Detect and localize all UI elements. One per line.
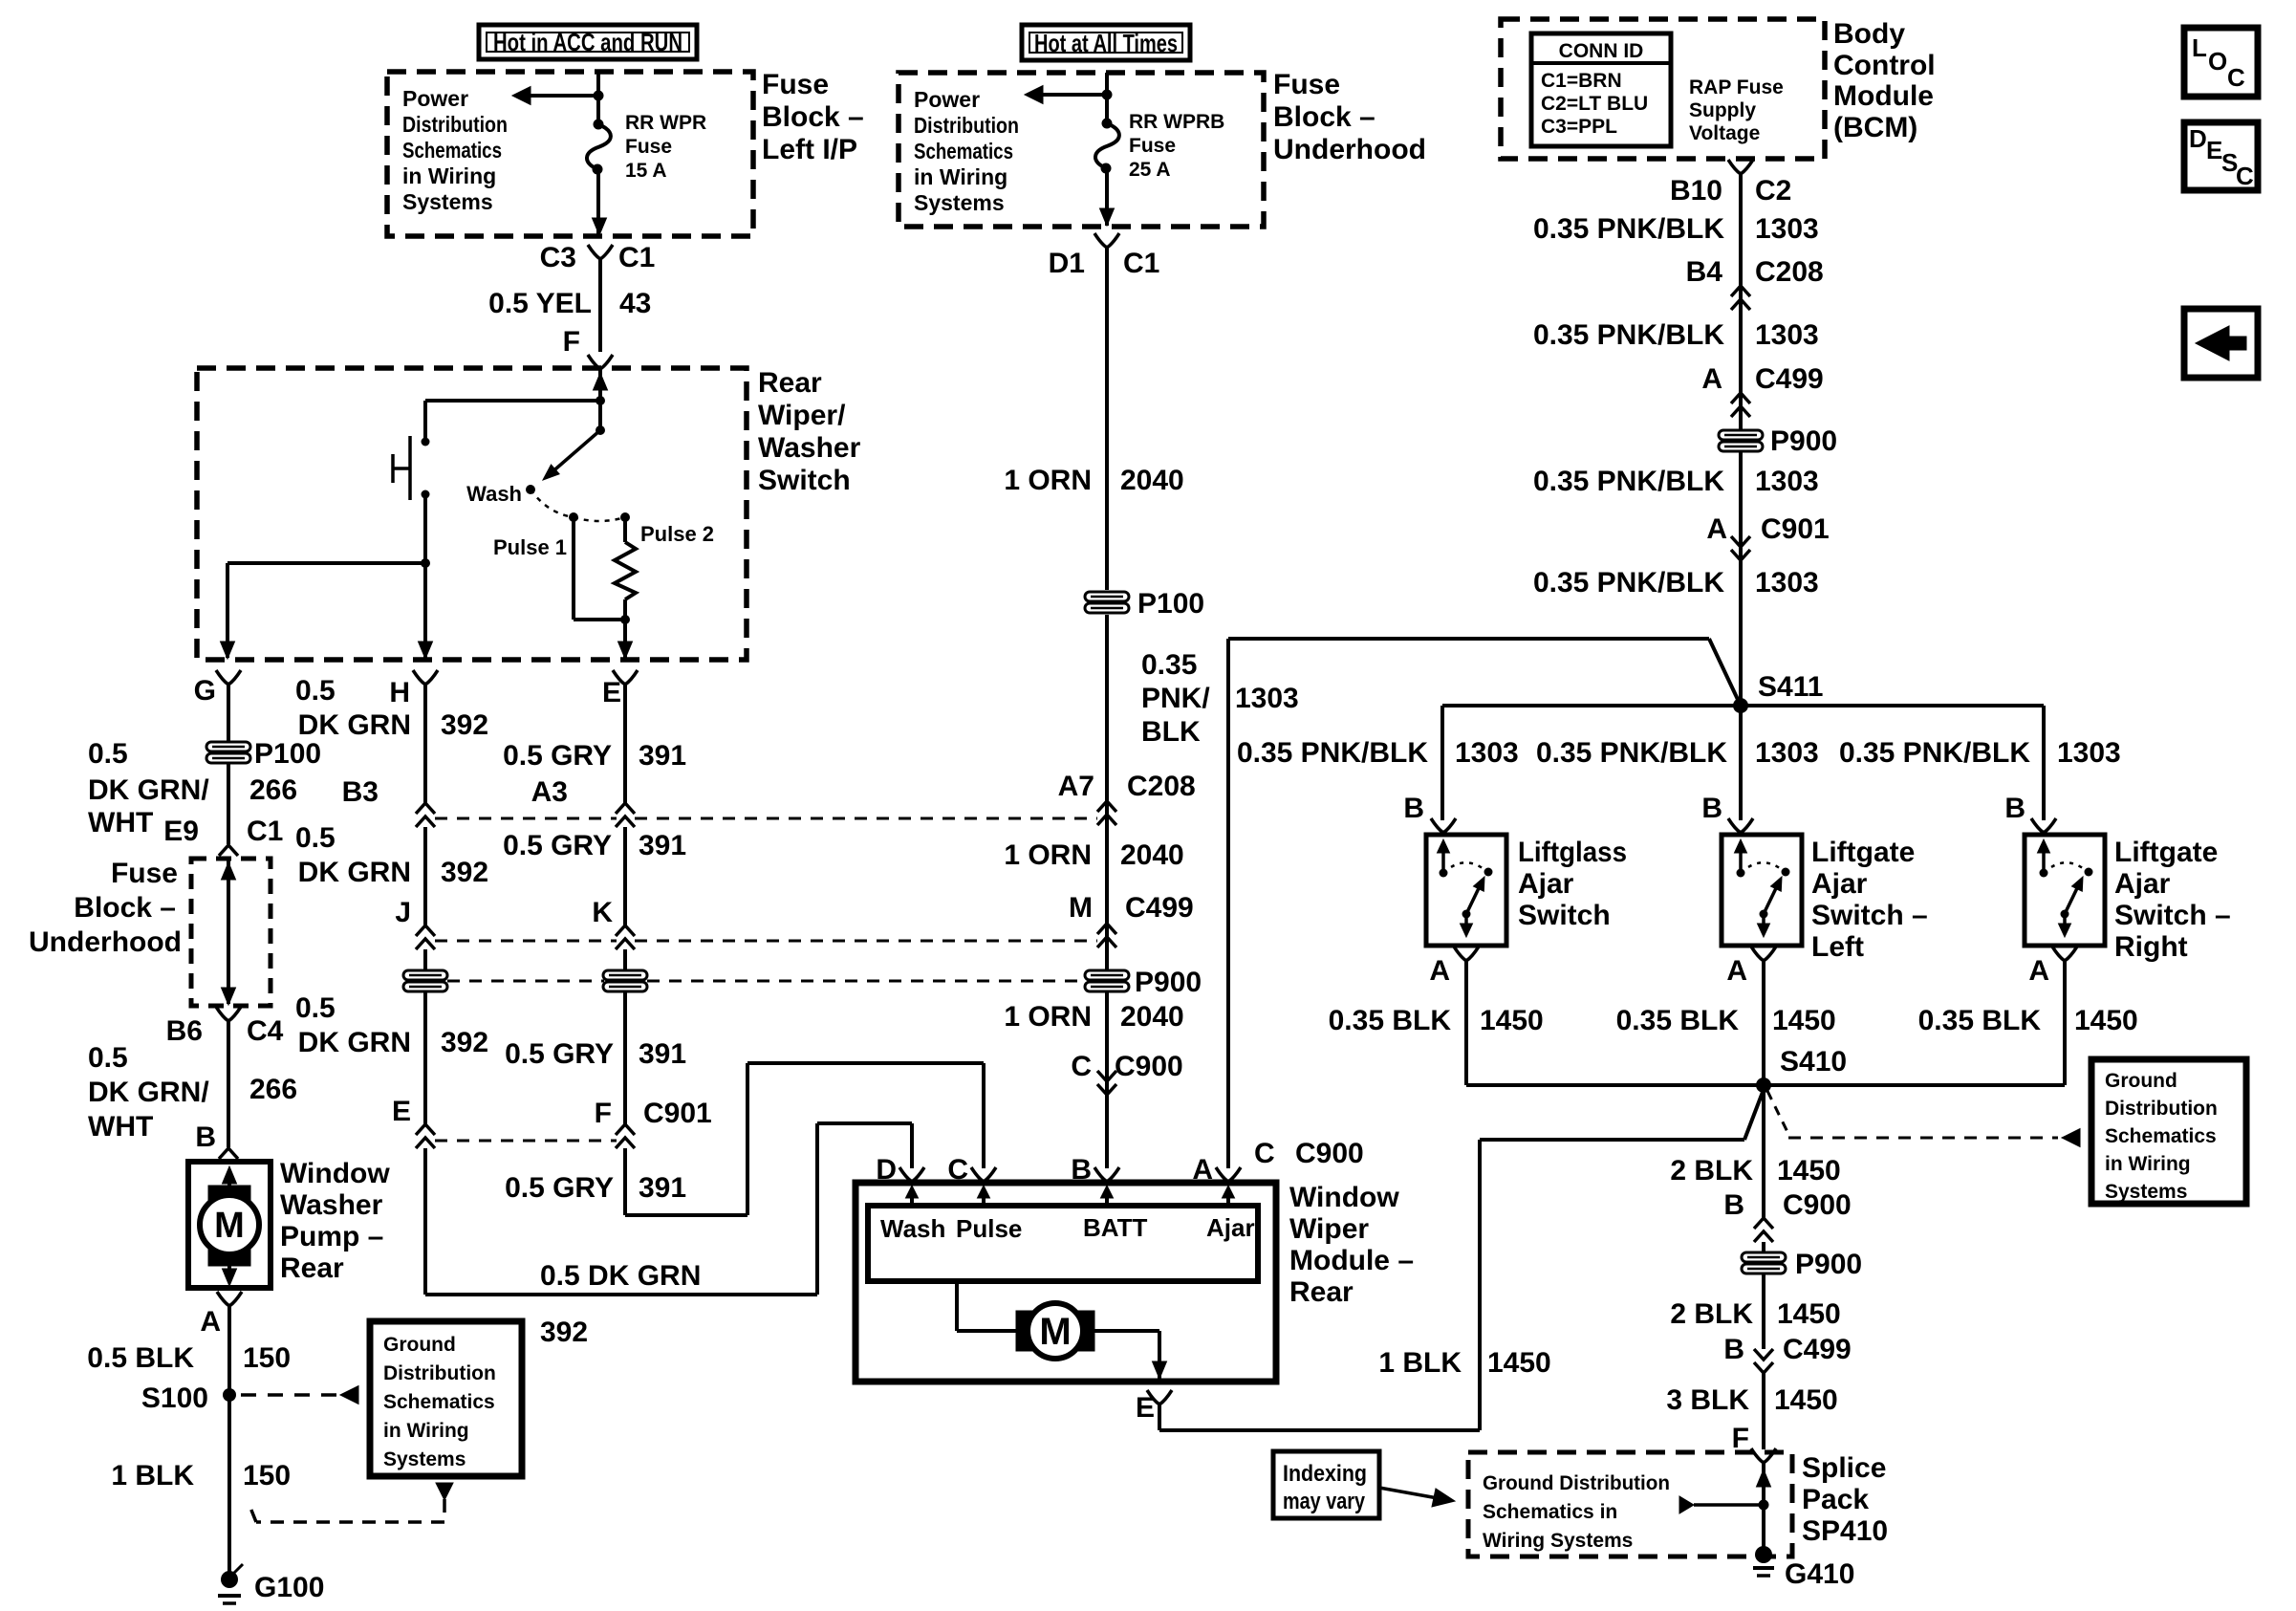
svg-text:Ground Distribution: Ground Distribution (1483, 1472, 1670, 1494)
svg-text:Switch –: Switch – (2114, 900, 2231, 931)
svg-text:C1: C1 (247, 816, 283, 847)
svg-text:1303: 1303 (1755, 567, 1819, 599)
resistor (pulse2) (623, 517, 627, 542)
svg-text:Window: Window (1289, 1182, 1399, 1213)
module inner terminal strip (868, 1206, 1258, 1281)
svg-text:C499: C499 (1755, 363, 1824, 395)
svg-text:0.35 PNK/BLK: 0.35 PNK/BLK (1533, 567, 1724, 599)
wire: S411 distribution bus (1442, 704, 2044, 708)
wire: module Ajar pin up and right to S411 (1226, 639, 1230, 1168)
wire: P100 to E (423, 991, 427, 1124)
splice pack SP410 dashed box (1468, 1452, 1792, 1557)
svg-text:Rear: Rear (758, 367, 822, 399)
pass-through P900 (BCM column) (1719, 430, 1763, 451)
svg-text:392: 392 (441, 1027, 488, 1058)
wire: S410 down (2 BLK 1450) (1762, 1085, 1765, 1218)
svg-text:Liftgate: Liftgate (2114, 837, 2218, 868)
dashed link row P100/P900 (447, 980, 604, 983)
svg-text:266: 266 (249, 1074, 297, 1105)
svg-text:3 BLK: 3 BLK (1666, 1384, 1749, 1416)
svg-text:Fuse: Fuse (762, 69, 829, 100)
svg-text:A: A (1701, 363, 1722, 395)
arrow: indexing note to splice pack (1379, 1488, 1438, 1498)
connector D1/C1 (1094, 233, 1107, 248)
svg-text:Pack: Pack (1802, 1484, 1869, 1515)
wire: common to left contact branch (425, 399, 600, 403)
svg-text:BATT: BATT (1083, 1213, 1148, 1242)
svg-text:0.5: 0.5 (295, 992, 336, 1024)
svg-text:E: E (2206, 136, 2222, 164)
svg-text:0.35 PNK/BLK: 0.35 PNK/BLK (1839, 737, 2030, 769)
wire into splice pack (1762, 1463, 1765, 1553)
svg-text:150: 150 (243, 1342, 291, 1374)
svg-text:1303: 1303 (2057, 737, 2121, 769)
wire: Pulse1 branch (572, 517, 575, 620)
svg-text:Left I/P: Left I/P (762, 134, 857, 165)
wire below fuse to box edge (1105, 168, 1109, 226)
svg-text:Schematics in: Schematics in (1483, 1501, 1617, 1523)
wire: fuse block feed (middle) (1105, 73, 1109, 123)
svg-text:C1: C1 (618, 242, 655, 273)
svg-text:M: M (1039, 1311, 1071, 1353)
svg-text:Washer: Washer (280, 1189, 383, 1221)
svg-text:A: A (1706, 513, 1727, 545)
svg-text:P100: P100 (254, 738, 321, 770)
svg-text:Pulse 2: Pulse 2 (640, 522, 714, 546)
svg-text:1 BLK: 1 BLK (111, 1460, 194, 1491)
ground distribution schematics box (left) (370, 1321, 522, 1476)
svg-text:25 A: 25 A (1129, 159, 1171, 181)
svg-text:1303: 1303 (1755, 737, 1819, 769)
svg-text:C3: C3 (540, 242, 576, 273)
svg-text:Schematics: Schematics (383, 1391, 495, 1413)
svg-text:in Wiring: in Wiring (2105, 1153, 2191, 1175)
svg-text:392: 392 (441, 857, 488, 888)
liftglass ajar switch (1426, 835, 1506, 946)
wire: lower contact to junction (423, 494, 427, 563)
svg-text:Systems: Systems (383, 1448, 466, 1470)
svg-text:B4: B4 (1686, 256, 1723, 288)
svg-text:0.5: 0.5 (88, 738, 128, 770)
ground distribution schematics box (right) (2091, 1059, 2246, 1204)
svg-text:C4: C4 (247, 1015, 284, 1047)
svg-text:B3: B3 (342, 776, 379, 808)
svg-text:M: M (214, 1206, 245, 1246)
svg-text:Distribution: Distribution (2105, 1098, 2218, 1120)
svg-text:DK GRN: DK GRN (298, 709, 411, 741)
svg-text:DK GRN: DK GRN (298, 1027, 411, 1058)
svg-text:392: 392 (441, 709, 488, 741)
svg-text:Module –: Module – (1289, 1245, 1414, 1276)
CONN ID table (1531, 33, 1671, 146)
svg-text:2040: 2040 (1120, 465, 1184, 496)
node Pulse 1 (569, 512, 578, 522)
svg-text:B: B (1071, 1154, 1092, 1186)
svg-text:0.35 PNK/BLK: 0.35 PNK/BLK (1533, 466, 1724, 497)
svg-text:Voltage: Voltage (1689, 122, 1760, 144)
wire label 3 BLK 1450 (1762, 1373, 1765, 1449)
svg-text:F: F (595, 1098, 612, 1129)
svg-text:0.35 BLK: 0.35 BLK (1918, 1005, 2042, 1036)
ground G410 (1755, 1546, 1772, 1563)
svg-text:Ajar: Ajar (1206, 1213, 1255, 1242)
indexing note box (1273, 1451, 1379, 1518)
svg-text:Wash: Wash (466, 482, 522, 506)
wire: F feed into switch (598, 369, 602, 401)
svg-text:Liftgate: Liftgate (1811, 837, 1915, 868)
svg-text:C900: C900 (1115, 1051, 1183, 1082)
svg-text:DK GRN: DK GRN (298, 857, 411, 888)
svg-text:D1: D1 (1049, 248, 1085, 279)
svg-text:G410: G410 (1785, 1558, 1854, 1590)
svg-text:C900: C900 (1783, 1189, 1852, 1221)
wire: E down to A3 (623, 685, 627, 803)
wire: 1 ORN 2040 (top) (1105, 248, 1109, 590)
svg-text:Wash: Wash (880, 1214, 945, 1243)
svg-text:C901: C901 (643, 1098, 712, 1129)
svg-text:C900: C900 (1295, 1138, 1364, 1169)
svg-text:1303: 1303 (1455, 737, 1519, 769)
svg-text:C1: C1 (1123, 248, 1159, 279)
svg-text:B: B (195, 1121, 216, 1153)
svg-text:0.35 PNK/BLK: 0.35 PNK/BLK (1533, 213, 1724, 245)
BCM dashed box (1501, 19, 1825, 159)
svg-text:may vary: may vary (1283, 1489, 1366, 1514)
svg-text:391: 391 (639, 1172, 686, 1204)
fuse block underhood dashed box (col A) (191, 859, 271, 1006)
svg-text:0.5 DK GRN: 0.5 DK GRN (540, 1260, 701, 1292)
svg-text:C499: C499 (1783, 1334, 1852, 1365)
svg-text:Block –: Block – (762, 101, 864, 133)
pass-through P100 (col C) (603, 970, 647, 991)
dashed link row J/K/M (435, 940, 617, 943)
node: switch common (596, 396, 605, 405)
svg-text:Power: Power (914, 87, 980, 112)
wiper motor M (955, 1281, 959, 1331)
svg-text:WHT: WHT (88, 1111, 153, 1143)
svg-text:Ajar: Ajar (1811, 868, 1868, 900)
svg-text:D: D (2189, 124, 2207, 153)
svg-text:Rear: Rear (1289, 1276, 1354, 1308)
svg-text:A: A (1429, 955, 1450, 987)
svg-text:A7: A7 (1058, 771, 1094, 802)
svg-text:Washer: Washer (758, 432, 861, 464)
node Wash (526, 485, 535, 494)
svg-text:1303: 1303 (1755, 319, 1819, 351)
DESC icon box (2184, 122, 2258, 190)
wire: B6 to pump (227, 1021, 230, 1147)
svg-text:DK GRN/: DK GRN/ (88, 1077, 209, 1108)
svg-text:0.5: 0.5 (295, 822, 336, 854)
svg-text:Power: Power (402, 86, 468, 111)
svg-text:P100: P100 (1137, 588, 1204, 620)
svg-text:C208: C208 (1755, 256, 1824, 288)
svg-text:Schematics: Schematics (2105, 1125, 2217, 1147)
svg-text:Ground: Ground (383, 1334, 456, 1356)
svg-text:0.35 PNK/BLK: 0.35 PNK/BLK (1237, 737, 1428, 769)
svg-text:Distribution: Distribution (402, 112, 508, 137)
svg-text:E: E (602, 677, 621, 708)
svg-text:Distribution: Distribution (383, 1362, 496, 1384)
connector B10/C2 (1739, 174, 1743, 706)
svg-text:(BCM): (BCM) (1833, 112, 1917, 143)
svg-text:F: F (563, 326, 580, 358)
svg-text:Fuse: Fuse (1273, 69, 1340, 100)
svg-text:Systems: Systems (2105, 1181, 2187, 1203)
svg-text:0.35: 0.35 (1141, 649, 1197, 681)
ground G100 (221, 1571, 238, 1588)
LOC icon box (2184, 28, 2258, 97)
wire: P100 to E9 (227, 763, 230, 844)
svg-text:A: A (1192, 1154, 1213, 1186)
module pin connectors D C B A (899, 1167, 912, 1182)
pass-through P100 (col B) (403, 970, 447, 991)
svg-text:H: H (389, 677, 410, 708)
svg-text:Switch: Switch (1518, 900, 1611, 931)
dashed link row E/F (435, 1140, 617, 1143)
svg-text:D: D (876, 1154, 897, 1186)
svg-text:F: F (1732, 1423, 1749, 1454)
dashed reference from S410 (1767, 1091, 1788, 1134)
svg-text:1450: 1450 (1777, 1155, 1841, 1186)
svg-text:Pump –: Pump – (280, 1221, 383, 1252)
dashed reference below box to ground wire (436, 1483, 453, 1500)
svg-text:A3: A3 (531, 776, 568, 808)
svg-text:Control: Control (1833, 50, 1936, 81)
svg-text:0.35 BLK: 0.35 BLK (1616, 1005, 1740, 1036)
svg-text:Body: Body (1833, 18, 1905, 50)
svg-text:C: C (1254, 1138, 1275, 1169)
svg-text:Splice: Splice (1802, 1452, 1886, 1484)
svg-text:Supply: Supply (1689, 99, 1756, 121)
window wiper module - rear outer box (856, 1183, 1276, 1382)
svg-text:CONN ID: CONN ID (1559, 40, 1644, 62)
svg-text:Schematics: Schematics (914, 139, 1013, 163)
svg-text:B: B (1723, 1334, 1744, 1365)
wire: K to P100 (623, 949, 627, 970)
svg-text:Block –: Block – (1273, 101, 1375, 133)
svg-text:S411: S411 (1758, 671, 1823, 703)
liftgate ajar switch - left (1722, 835, 1802, 946)
svg-text:C499: C499 (1125, 892, 1194, 924)
wire: P100 to F (623, 991, 627, 1124)
pass-through P900 (ground column) (1742, 1252, 1786, 1274)
svg-text:C: C (1071, 1051, 1092, 1082)
svg-text:0.5: 0.5 (295, 675, 336, 707)
svg-text:B6: B6 (166, 1015, 203, 1047)
svg-text:Wiper/: Wiper/ (758, 400, 846, 431)
svg-text:0.5 GRY: 0.5 GRY (503, 740, 612, 772)
wire below fuse to box edge (596, 169, 600, 235)
dashed detent arc Pulse1-Pulse2 (574, 517, 625, 521)
contact H (washer switch fixed contact) (422, 438, 430, 446)
svg-text:C: C (2227, 63, 2245, 92)
svg-text:SP410: SP410 (1802, 1515, 1888, 1547)
svg-text:Ajar: Ajar (2114, 868, 2171, 900)
svg-text:B: B (1403, 793, 1424, 824)
svg-text:1 ORN: 1 ORN (1004, 839, 1092, 871)
svg-text:A: A (1726, 955, 1747, 987)
svg-text:0.5 YEL: 0.5 YEL (488, 288, 592, 319)
arrow to power distribution (left) (512, 87, 531, 105)
svg-text:Ground: Ground (2105, 1070, 2177, 1092)
connector G (216, 670, 228, 685)
svg-text:E: E (1136, 1392, 1155, 1424)
connector A (liftgate left) (1751, 947, 1764, 961)
svg-text:RR WPRB: RR WPRB (1129, 111, 1224, 133)
svg-text:Pulse 1: Pulse 1 (493, 535, 567, 559)
svg-text:0.35 BLK: 0.35 BLK (1329, 1005, 1452, 1036)
svg-text:Fuse: Fuse (625, 136, 672, 158)
svg-text:M: M (1069, 892, 1093, 924)
wire: F down and across to module Pulse pin (0.5 GRY 391) (623, 1148, 627, 1215)
fuse RR WPR 15 A (594, 120, 604, 130)
svg-text:A: A (200, 1306, 221, 1338)
svg-text:15 A: 15 A (625, 160, 667, 182)
svg-text:WHT: WHT (88, 807, 153, 838)
svg-text:P900: P900 (1770, 425, 1837, 457)
wire through fuse block (col A) (227, 859, 230, 1004)
svg-text:B: B (1701, 793, 1722, 824)
svg-text:Fuse: Fuse (111, 858, 178, 889)
svg-text:1450: 1450 (1487, 1347, 1551, 1379)
label box: Hot at All Times (1022, 25, 1190, 60)
svg-text:Rear: Rear (280, 1252, 344, 1284)
fuse block left I/P dashed box (387, 72, 753, 236)
arrow to power distribution (middle) (1025, 86, 1043, 104)
svg-text:P900: P900 (1795, 1249, 1862, 1280)
wire: motor to E pin (1094, 1329, 1159, 1333)
svg-text:1450: 1450 (1777, 1298, 1841, 1330)
back arrow icon box (2184, 309, 2258, 378)
svg-text:C: C (947, 1154, 968, 1186)
svg-text:DK GRN/: DK GRN/ (88, 774, 209, 806)
splice S410 (1466, 1083, 2065, 1087)
svg-text:0.35 PNK/BLK: 0.35 PNK/BLK (1533, 319, 1724, 351)
svg-text:E: E (392, 1096, 411, 1127)
wire: ORN down to module BATT (1105, 615, 1109, 1168)
splice S100 (223, 1388, 236, 1402)
wire: H down to B3 (423, 685, 427, 803)
svg-text:392: 392 (540, 1317, 588, 1348)
wire to P900 (1762, 1242, 1765, 1252)
pass-through P900 (ORN column) (1085, 970, 1129, 991)
svg-text:1303: 1303 (1755, 466, 1819, 497)
svg-text:Wiring Systems: Wiring Systems (1483, 1530, 1633, 1552)
svg-text:C3=PPL: C3=PPL (1541, 116, 1617, 138)
svg-text:1450: 1450 (2074, 1005, 2138, 1036)
connector E (switch) (613, 670, 625, 685)
svg-text:RAP Fuse: RAP Fuse (1689, 76, 1784, 98)
svg-text:2040: 2040 (1120, 839, 1184, 871)
node Pulse 2 (620, 512, 630, 522)
svg-text:Ajar: Ajar (1518, 868, 1574, 900)
svg-text:Systems: Systems (402, 189, 493, 214)
svg-text:P900: P900 (1135, 967, 1202, 998)
wire: pulse output to E pin (623, 620, 627, 658)
connector A (liftglass) (1454, 947, 1466, 961)
svg-text:Switch: Switch (758, 465, 851, 496)
liftgate ajar switch - right (2025, 835, 2105, 946)
svg-text:Systems: Systems (914, 190, 1005, 215)
connector A (liftgate right) (2052, 947, 2065, 961)
svg-text:PNK/: PNK/ (1141, 683, 1210, 714)
svg-text:1303: 1303 (1235, 683, 1299, 714)
connector C3/C1 (598, 259, 602, 352)
svg-text:Schematics: Schematics (402, 138, 502, 163)
svg-text:E9: E9 (163, 816, 199, 847)
svg-text:K: K (592, 897, 613, 928)
svg-text:C2: C2 (1755, 175, 1791, 207)
svg-text:B: B (1723, 1189, 1744, 1221)
svg-text:C1=BRN: C1=BRN (1541, 70, 1622, 92)
svg-text:43: 43 (619, 288, 651, 319)
svg-text:J: J (395, 897, 411, 928)
connector B6/C4 (216, 1007, 228, 1021)
svg-text:C208: C208 (1127, 771, 1196, 802)
svg-text:0.5 BLK: 0.5 BLK (87, 1342, 194, 1374)
svg-text:G100: G100 (254, 1572, 324, 1603)
fuse RR WPRB 25 A (1102, 119, 1113, 129)
svg-text:C: C (2236, 162, 2254, 190)
connector H (413, 670, 425, 685)
svg-text:in Wiring: in Wiring (383, 1420, 469, 1442)
label box: Hot in ACC and RUN (479, 25, 697, 59)
svg-text:2 BLK: 2 BLK (1670, 1155, 1753, 1186)
svg-text:Block –: Block – (74, 892, 176, 924)
svg-text:1 ORN: 1 ORN (1004, 1001, 1092, 1033)
wire: S100 to G100 (227, 1395, 231, 1577)
svg-text:150: 150 (243, 1460, 291, 1491)
svg-text:Window: Window (280, 1158, 390, 1189)
svg-text:Underhood: Underhood (1273, 134, 1426, 165)
wire: fuse block feed (left) (596, 72, 600, 124)
svg-text:1 BLK: 1 BLK (1378, 1347, 1462, 1379)
svg-text:Pulse: Pulse (956, 1214, 1022, 1243)
svg-text:Left: Left (1811, 931, 1864, 963)
svg-text:in Wiring: in Wiring (402, 163, 496, 188)
wire: junction to G branch (227, 561, 425, 565)
wire: G to P100 (227, 685, 230, 742)
svg-text:266: 266 (249, 774, 297, 806)
wire: B3 to J (423, 827, 427, 925)
splice S411 (1733, 698, 1748, 713)
pass-through P100 (col A) (206, 742, 250, 763)
switch wiper arm (to Wash) (598, 401, 602, 430)
window washer pump - rear (188, 1162, 271, 1288)
svg-text:in Wiring: in Wiring (914, 164, 1007, 189)
connector E (module) (1147, 1390, 1159, 1404)
svg-text:0.5 GRY: 0.5 GRY (505, 1172, 614, 1204)
svg-text:G: G (194, 675, 216, 707)
svg-text:2040: 2040 (1120, 1001, 1184, 1033)
connector A (pump) (217, 1292, 229, 1306)
svg-text:391: 391 (639, 1038, 686, 1070)
svg-text:B: B (2004, 793, 2025, 824)
svg-text:Hot at All Times: Hot at All Times (1034, 29, 1178, 57)
dashed detent arc Wash-Pulse1 (531, 490, 574, 517)
svg-text:BLK: BLK (1141, 716, 1201, 748)
svg-text:Liftglass: Liftglass (1518, 837, 1627, 868)
fuse block underhood dashed box (top) (899, 73, 1264, 227)
wire label 2 BLK 1450 (2) (1762, 1274, 1765, 1349)
wire: A3 to K (623, 827, 627, 925)
svg-text:391: 391 (639, 830, 686, 861)
svg-text:Indexing: Indexing (1283, 1461, 1367, 1487)
wires: switch outputs to S410 (1464, 961, 1468, 1085)
svg-text:1303: 1303 (1755, 213, 1819, 245)
svg-text:Module: Module (1833, 80, 1934, 112)
